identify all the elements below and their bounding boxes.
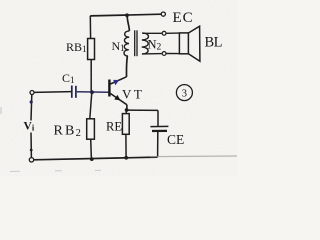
wire N2 top lead xyxy=(143,32,163,34)
inductor N2 (secondary winding) xyxy=(142,33,149,54)
wire CE top lead xyxy=(157,110,159,126)
wire input to C1 xyxy=(34,91,71,94)
wire top rail xyxy=(90,14,161,16)
speaker BL body xyxy=(179,33,188,54)
transformer core bar right xyxy=(136,30,138,56)
blob on Vi wire lower xyxy=(30,149,33,152)
wire N1 top lead xyxy=(127,16,129,31)
node rail RE xyxy=(124,156,128,160)
wire emitter down xyxy=(126,105,128,110)
blob on Vi wire xyxy=(30,100,33,103)
capacitor C1 xyxy=(71,86,73,98)
wire bottom rail xyxy=(34,157,158,160)
capacitor CE top plate xyxy=(150,125,168,127)
resistor RB2 xyxy=(87,119,95,139)
node top rail / N1 xyxy=(125,13,129,17)
capacitor CE bottom plate xyxy=(152,130,167,132)
input terminal bottom xyxy=(29,158,33,162)
resistor RE lead bottom xyxy=(125,134,127,157)
wire C1 to base xyxy=(77,91,109,94)
node rail RB2 xyxy=(90,157,94,161)
resistor RB1 xyxy=(88,39,95,60)
faint table line bottom right xyxy=(150,155,237,158)
wire N2 bottom lead xyxy=(142,53,162,55)
node base junction xyxy=(90,90,94,94)
paper grain overlay xyxy=(0,0,237,176)
terminal EC xyxy=(161,12,165,16)
resistor RB2 lead bottom xyxy=(90,139,93,159)
faint scan specks bottom xyxy=(10,170,101,171)
terminal N2 top xyxy=(162,31,166,35)
wire to speaker top xyxy=(166,32,179,34)
blue current arrow on collector xyxy=(113,80,119,85)
resistor RB1 lead upper xyxy=(89,16,91,39)
transistor VT collector stroke xyxy=(110,77,126,84)
wire Vi vertical lower xyxy=(30,133,32,158)
circled 3 annotation xyxy=(176,85,192,101)
faint speck left edge xyxy=(0,107,2,114)
emitter arrowhead xyxy=(114,95,120,101)
resistor RB1 lead lower xyxy=(90,60,92,93)
transformer core bar left xyxy=(134,30,136,56)
resistor RE lead top xyxy=(125,110,127,114)
inductor N1 (primary winding) xyxy=(124,31,129,56)
wire Vi vertical upper xyxy=(30,95,33,121)
input terminal top xyxy=(30,91,34,95)
wire N1 bottom to collector xyxy=(125,56,128,77)
wire to speaker bottom xyxy=(166,53,179,55)
terminal N2 bottom xyxy=(162,52,166,56)
transistor VT base bar xyxy=(108,80,110,97)
wire emitter node to CE xyxy=(127,109,158,111)
wire CE bottom lead xyxy=(157,132,159,157)
transistor VT emitter stroke xyxy=(110,94,127,105)
paper background xyxy=(0,0,237,176)
node emitter junction xyxy=(125,108,129,112)
speaker BL cone xyxy=(188,26,200,61)
resistor RE xyxy=(122,114,129,135)
resistor RB2 lead top xyxy=(90,92,92,119)
